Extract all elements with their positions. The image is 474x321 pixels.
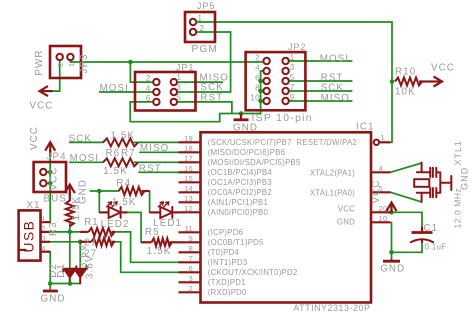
svg-text:4: 4 [146,84,151,93]
svg-text:R10: R10 [395,67,416,78]
svg-text:RST: RST [139,164,162,175]
svg-text:1: 1 [67,63,76,67]
svg-text:VCC: VCC [431,63,455,74]
svg-text:(AIN1/PCI1)PB1: (AIN1/PCI1)PB1 [208,198,268,207]
svg-text:13: 13 [184,194,193,203]
svg-text:D1: D1 [56,263,67,278]
svg-text:18: 18 [184,144,193,153]
svg-text:XTL1: XTL1 [453,140,463,165]
svg-text:GND: GND [337,218,355,227]
svg-text:(T0)PD4: (T0)PD4 [208,248,240,257]
svg-text:ATTINY2313-20P: ATTINY2313-20P [293,303,370,313]
svg-text:JP1: JP1 [176,63,194,73]
svg-text:RST: RST [200,92,223,103]
svg-text:(OC0B/T1)PD5: (OC0B/T1)PD5 [208,238,264,247]
svg-text:8: 8 [255,84,260,93]
svg-text:JP2: JP2 [288,42,306,52]
svg-text:1: 1 [198,14,203,23]
svg-text:1: 1 [41,214,45,223]
svg-text:19: 19 [184,134,193,143]
svg-text:4: 4 [255,64,260,73]
svg-text:3: 3 [41,234,45,243]
svg-text:9: 9 [290,93,295,102]
svg-text:2: 2 [189,284,193,293]
svg-text:MISO: MISO [140,143,169,154]
svg-text:1.5K: 1.5K [147,246,172,257]
svg-text:10: 10 [379,214,388,223]
svg-text:C1: C1 [424,223,439,234]
svg-text:3.6V: 3.6V [85,254,96,279]
svg-text:4: 4 [379,164,383,173]
svg-text:SCK: SCK [200,82,223,93]
svg-text:7: 7 [290,83,295,92]
svg-text:2: 2 [255,54,260,63]
svg-text:MOSI: MOSI [320,53,349,64]
svg-text:XTAL1(PA0): XTAL1(PA0) [310,188,355,197]
svg-text:IC1: IC1 [356,122,375,133]
svg-text:11: 11 [185,224,193,233]
svg-text:4: 4 [41,244,45,253]
svg-text:1.5K: 1.5K [112,197,137,208]
svg-text:PGM: PGM [192,44,219,55]
svg-text:7: 7 [189,254,193,263]
svg-text:1.5K: 1.5K [103,166,128,177]
svg-text:1.5K: 1.5K [111,131,136,142]
svg-text:20: 20 [379,204,388,213]
svg-text:JP4: JP4 [47,151,67,162]
svg-text:6: 6 [189,264,193,273]
svg-text:(ICP)PD6: (ICP)PD6 [208,228,243,237]
svg-text:SCK: SCK [69,133,92,144]
svg-text:(RXD)PD0: (RXD)PD0 [208,288,247,297]
svg-text:(SCK/UCSK/PCI7)PB7: (SCK/UCSK/PCI7)PB7 [208,138,292,147]
svg-text:RST: RST [321,72,344,83]
svg-text:GND: GND [460,167,470,190]
svg-text:6: 6 [146,94,151,103]
svg-text:5: 5 [177,93,182,102]
svg-text:R4: R4 [116,178,131,189]
svg-text:LED2: LED2 [101,219,130,230]
svg-text:3: 3 [290,63,295,72]
svg-text:10: 10 [250,94,260,103]
svg-text:(AIN0/PCI0)PB0: (AIN0/PCI0)PB0 [208,208,269,217]
svg-text:(CKOUT/XCK/INT0)PD2: (CKOUT/XCK/INT0)PD2 [208,268,298,277]
svg-text:R7: R7 [121,148,136,159]
svg-text:JP5: JP5 [197,1,215,11]
svg-text:15: 15 [184,174,193,183]
svg-text:R1: R1 [84,217,99,228]
svg-text:(OC1A/PCI3)PB3: (OC1A/PCI3)PB3 [208,178,272,187]
svg-text:R6: R6 [106,148,121,159]
svg-text:BUS: BUS [44,194,67,205]
svg-text:USB: USB [22,220,37,253]
svg-text:1: 1 [177,73,182,82]
svg-text:17: 17 [184,154,193,163]
svg-text:VCC: VCC [49,167,60,191]
svg-text:6: 6 [255,74,260,83]
svg-text:R5: R5 [145,227,160,238]
svg-text:MOSI: MOSI [100,83,129,94]
svg-text:2: 2 [41,224,45,233]
svg-text:3: 3 [177,83,182,92]
svg-text:ISP 10-pin: ISP 10-pin [252,113,313,124]
svg-text:(TXD)PD1: (TXD)PD1 [208,278,246,287]
svg-text:2: 2 [200,24,205,33]
svg-text:VCC: VCC [29,126,40,150]
svg-text:3: 3 [189,274,193,283]
svg-text:5: 5 [290,73,295,82]
svg-text:VCC: VCC [30,101,54,112]
svg-text:MISO: MISO [321,93,350,104]
svg-text:10K: 10K [395,86,416,97]
svg-text:1: 1 [290,53,295,62]
svg-text:2: 2 [146,74,151,83]
svg-text:RESET/DW/PA2: RESET/DW/PA2 [297,138,357,147]
svg-text:VCC: VCC [338,205,355,214]
svg-text:JP3: JP3 [79,53,90,73]
svg-text:(INT1)PD3: (INT1)PD3 [208,258,248,267]
svg-text:0.1uF: 0.1uF [425,243,447,252]
svg-text:X1: X1 [27,200,41,211]
svg-text:12.0 MHz: 12.0 MHz [453,188,463,229]
svg-text:VCC: VCC [371,180,382,204]
svg-text:(OC1B/PCI4)PB4: (OC1B/PCI4)PB4 [208,168,273,177]
svg-text:1.5K: 1.5K [71,196,82,221]
svg-text:XTAL2(PA1): XTAL2(PA1) [310,168,355,177]
svg-text:8: 8 [189,244,193,253]
svg-text:2: 2 [56,63,65,67]
svg-text:12: 12 [184,204,193,213]
svg-text:14: 14 [184,184,193,193]
svg-text:GND: GND [233,123,258,134]
svg-text:(MOSI/DI/SDA/PCI5)PB5: (MOSI/DI/SDA/PCI5)PB5 [208,158,301,167]
svg-text:PWR: PWR [34,49,45,75]
svg-text:16: 16 [184,164,193,173]
svg-text:R3: R3 [48,221,59,236]
svg-text:GND: GND [41,294,66,305]
svg-text:(MISO/DO/PCI6)PB6: (MISO/DO/PCI6)PB6 [208,148,285,157]
svg-text:(OC0A/PCI2)PB2: (OC0A/PCI2)PB2 [208,188,272,197]
svg-text:9: 9 [189,234,193,243]
svg-text:1: 1 [381,133,385,142]
svg-text:MOSI: MOSI [70,153,99,164]
svg-text:GND: GND [380,263,405,274]
